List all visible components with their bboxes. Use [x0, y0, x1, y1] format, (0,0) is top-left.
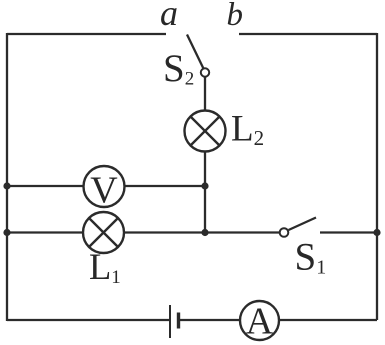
wire L1 to S1 [124, 231, 280, 233]
svg-text:b: b [227, 0, 244, 33]
switch S1 blade [289, 218, 317, 231]
wire top-left segment [7, 33, 166, 35]
wire L2 to junction [204, 152, 206, 233]
junction dot middle-lower [201, 229, 208, 236]
switch S1 contact circle [280, 228, 289, 237]
wire battery to ammeter [180, 319, 240, 321]
wire voltmeter branch right [125, 185, 206, 187]
wire top-right segment [239, 33, 377, 35]
lamp L1 [83, 212, 124, 253]
ammeter A [240, 301, 279, 343]
svg-text:a: a [160, 0, 178, 33]
svg-text:S2: S2 [163, 47, 194, 90]
wire voltmeter branch left [7, 185, 84, 187]
wire S1 to right [320, 231, 377, 233]
lamp L2 [185, 111, 226, 152]
switch S2 blade [187, 35, 203, 69]
junction dot left-upper [3, 182, 10, 189]
voltmeter V [84, 166, 125, 211]
wire bottom-right [279, 319, 377, 321]
svg-text:L2: L2 [231, 109, 264, 151]
wire right vertical [376, 33, 378, 320]
wire L1 branch left [7, 231, 83, 233]
switch S2 contact circle [201, 68, 209, 76]
svg-text:S1: S1 [295, 236, 327, 279]
junction dot right [373, 229, 380, 236]
junction dot middle-upper [201, 182, 208, 189]
svg-text:A: A [246, 301, 274, 343]
wire bottom-left [7, 319, 169, 321]
wire left vertical [6, 33, 8, 321]
svg-text:L1: L1 [89, 246, 121, 288]
svg-text:V: V [90, 169, 118, 211]
wire S2 to L2 [204, 77, 206, 112]
battery [170, 305, 179, 338]
junction dot left-lower [3, 229, 10, 236]
